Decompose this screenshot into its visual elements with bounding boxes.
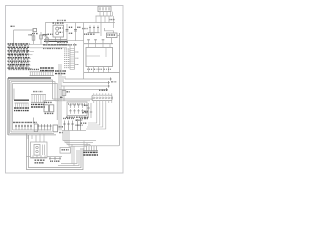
wire CN6 drop 3 xyxy=(87,103,103,127)
wire RL1 pin top xyxy=(55,23,57,26)
relay RL1 xyxy=(53,25,64,37)
resistor R12 xyxy=(41,124,43,131)
label rows mid-right xyxy=(82,112,88,114)
resistor R11 xyxy=(38,124,40,131)
wire net-A vertical stub xyxy=(13,30,15,45)
wire CN6 drop 4 xyxy=(86,103,106,129)
wire CN6 drop 1 xyxy=(88,103,97,123)
capacitor C2 xyxy=(66,24,73,41)
diode D3 xyxy=(97,26,99,33)
resistor R20 xyxy=(49,157,61,161)
label box xyxy=(60,148,71,154)
bus CN4 bar xyxy=(14,99,29,101)
pin labels CN2 left xyxy=(64,49,69,68)
wire rail to CN7 xyxy=(84,145,120,146)
box T1 outline xyxy=(31,142,48,158)
net name band 2 xyxy=(43,47,63,49)
capacitor C42 xyxy=(68,121,70,131)
wire U1 bottom bus xyxy=(84,72,120,74)
pins under T1 xyxy=(32,155,34,158)
net label row 6 xyxy=(8,60,30,62)
bus wire 4 xyxy=(13,83,58,120)
wire xyxy=(100,23,102,37)
wire drop xyxy=(64,76,66,79)
wire RL1 pin bottom xyxy=(55,37,57,41)
resistor R1 xyxy=(32,29,38,34)
capacitor C17 xyxy=(78,109,80,114)
pads bus ends xyxy=(107,78,118,92)
bus left drop 2 xyxy=(9,80,11,133)
wire nest 3 xyxy=(67,131,90,145)
wire mid bus b xyxy=(55,100,90,102)
wire U1 pins top xyxy=(88,44,90,48)
capacitor C13 xyxy=(78,104,80,109)
net label row 8 xyxy=(8,67,30,69)
wire X1 to rail xyxy=(117,33,120,35)
capacitor C18 xyxy=(82,109,84,114)
capacitor C11 xyxy=(70,104,72,109)
label left of diodes xyxy=(82,28,88,30)
wire mid bus a xyxy=(53,98,94,100)
wire CN6 drop 2 xyxy=(88,103,100,125)
wire L to CN4 xyxy=(13,89,15,100)
heavy bus upper xyxy=(44,39,67,41)
diode D2 xyxy=(93,26,95,33)
bus bottom nest 3 xyxy=(61,150,77,164)
capacitor C7 xyxy=(60,86,70,101)
net label row 1 xyxy=(8,43,30,45)
capacitor C12 xyxy=(74,104,76,109)
net label row 2 xyxy=(8,46,30,48)
wire T1 inner xyxy=(42,145,44,156)
net labels under bus xyxy=(44,44,77,46)
bus line 4 xyxy=(59,89,108,91)
capacitor C31 xyxy=(15,125,17,130)
net label row 3 xyxy=(8,50,30,52)
capacitor C3 xyxy=(74,23,80,41)
label under T1 xyxy=(35,159,45,161)
capacitor C43 xyxy=(72,121,74,131)
labels above CN2 xyxy=(57,41,68,43)
net name band xyxy=(43,44,66,46)
wire top bus xyxy=(46,23,116,35)
bus line 2 xyxy=(63,82,110,84)
wire net-A horizontal xyxy=(14,29,35,31)
bus line 1 xyxy=(65,78,112,80)
wire drops to T1 xyxy=(39,134,41,142)
net label row 7 xyxy=(8,64,30,66)
resistor R15 xyxy=(50,124,52,131)
bus left drop 1 xyxy=(7,78,9,135)
capacitor C1 xyxy=(44,34,53,36)
wire stubs below xyxy=(27,135,29,139)
wire verticals mid-bottom xyxy=(71,144,73,164)
bus wire 3 xyxy=(11,82,55,101)
capacitor C44 cluster xyxy=(76,119,83,130)
transistor Q2 xyxy=(45,105,54,114)
labels CN5 xyxy=(31,103,45,105)
wire nest 2 xyxy=(65,131,93,143)
wire CN1 pins xyxy=(99,12,101,16)
wire U1 pins bottom xyxy=(88,67,90,73)
label xyxy=(59,132,64,134)
connector CN5 xyxy=(31,95,46,103)
connector CN6 xyxy=(92,93,113,103)
wire CN1 drops xyxy=(95,16,97,23)
wire CN1 right xyxy=(112,12,114,16)
stub above D5 xyxy=(33,118,35,124)
heavy bus xyxy=(44,40,67,42)
labels above CN3 xyxy=(28,68,39,70)
bus left drop 3 xyxy=(10,82,12,132)
bus bottom run 4 xyxy=(13,129,51,131)
bus bottom run 3 xyxy=(11,131,52,133)
labels under cap box xyxy=(66,116,85,118)
label band xyxy=(40,67,54,69)
box outline xyxy=(67,102,87,116)
crystal X1 xyxy=(107,33,118,38)
wire into T1 xyxy=(26,156,31,158)
net label row 5 xyxy=(8,57,30,59)
capacitor C34 xyxy=(24,125,26,130)
resistor R4 xyxy=(46,36,49,46)
capacitor C41 xyxy=(64,121,66,131)
wire mid drop 4 xyxy=(60,86,62,131)
transformer T1 xyxy=(34,145,40,156)
label above CN6 xyxy=(99,89,108,91)
IC U2 xyxy=(53,125,63,132)
capacitor C21 xyxy=(84,103,92,118)
capacitor C35 xyxy=(27,125,29,130)
resistor R14 xyxy=(47,124,49,131)
pin labels CN2 right xyxy=(76,52,79,65)
wire X1 pin down xyxy=(111,38,113,44)
capacitor C15 xyxy=(70,109,72,114)
wire row 5 xyxy=(30,57,32,59)
resistor R2 xyxy=(29,33,35,45)
wire diode bus xyxy=(88,32,100,34)
bus bottom nest 1 xyxy=(29,135,82,168)
relay RL1 label xyxy=(53,22,64,24)
connector CN1 xyxy=(98,6,111,11)
resistor R13 xyxy=(44,124,46,131)
bus bottom run 2 xyxy=(10,132,55,134)
capacitor C14 xyxy=(82,104,84,109)
labels above CN5 xyxy=(33,91,43,93)
connector CN4 xyxy=(15,103,29,107)
resistor R3 xyxy=(40,32,46,44)
connector CN2 xyxy=(70,48,75,70)
wire teeth feeds xyxy=(83,141,85,146)
transistor Q1 xyxy=(44,102,52,111)
wire vertical xyxy=(83,23,85,80)
bus bottom nest 4 xyxy=(58,150,79,166)
wire xyxy=(105,28,114,33)
wire nest 4 xyxy=(69,131,87,147)
bus left drop 4 xyxy=(12,83,14,129)
wire row 6 xyxy=(30,61,31,63)
wire nest 1 xyxy=(63,131,96,141)
wire xyxy=(44,101,59,105)
bus bottom run 1 xyxy=(8,134,56,136)
wire cap row bus xyxy=(62,130,86,132)
wire row 4 xyxy=(30,54,33,56)
capacitor C36 xyxy=(30,125,32,130)
wire mid drop 3 xyxy=(58,90,60,131)
wire U1 top bus xyxy=(84,43,113,45)
capacitor C16 xyxy=(74,109,76,114)
capacitor C32 xyxy=(18,125,20,130)
capacitor C5 xyxy=(94,40,97,44)
wire CN2 top xyxy=(67,43,75,48)
net label A xyxy=(11,25,15,27)
diode D1 xyxy=(89,26,91,33)
wire row 1 xyxy=(30,43,68,45)
wire row 8 xyxy=(30,68,33,70)
wire right rail xyxy=(119,33,121,145)
wire out T1 xyxy=(47,156,62,158)
wire bus continuation xyxy=(67,40,84,42)
wire row 3 xyxy=(30,50,35,52)
diode D5 xyxy=(34,124,37,132)
label above bus xyxy=(57,19,66,21)
bus bottom nest 2 xyxy=(27,133,84,169)
connector CN7 xyxy=(83,146,98,151)
pin labels U1 xyxy=(87,68,111,70)
wire row 2 xyxy=(30,47,68,49)
label under CN2 xyxy=(55,70,66,72)
net label row 4 xyxy=(8,53,30,55)
label CN7 xyxy=(83,151,98,153)
label xyxy=(110,19,115,21)
IC U1 xyxy=(86,48,113,67)
capacitor C6 xyxy=(102,40,105,44)
capacitor C20 xyxy=(84,103,90,118)
bus wire 2 xyxy=(10,80,53,99)
capacitor C4 xyxy=(87,40,90,44)
connector CN3 xyxy=(30,72,55,76)
labels in cap box xyxy=(68,103,85,105)
labels above row xyxy=(13,121,37,123)
bus line 3 xyxy=(61,85,110,87)
labels CN4 xyxy=(14,107,29,109)
wire row 7 xyxy=(30,64,31,66)
wire CN1 tail xyxy=(113,16,115,28)
labels under diodes xyxy=(84,33,95,35)
wire CN1 bar xyxy=(96,15,113,17)
bus heavy xyxy=(8,77,51,79)
capacitor C33 xyxy=(21,125,23,130)
